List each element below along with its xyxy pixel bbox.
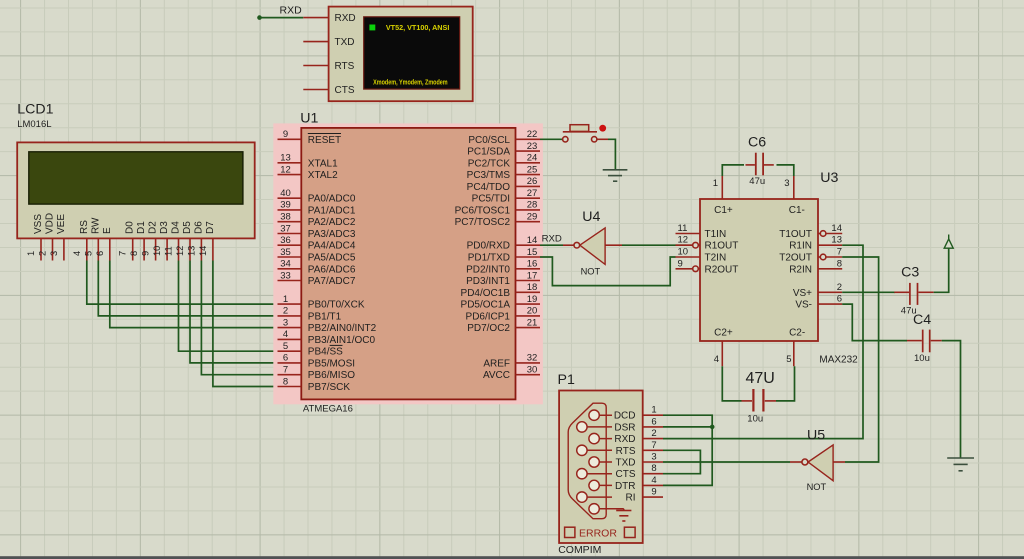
svg-text:R1IN: R1IN bbox=[789, 241, 812, 252]
capacitor C3 47u bbox=[894, 265, 933, 317]
svg-text:3: 3 bbox=[49, 251, 59, 256]
net label RXD (U1 pin 14) bbox=[542, 233, 562, 244]
svg-text:D0: D0 bbox=[125, 221, 136, 234]
svg-text:29: 29 bbox=[527, 212, 538, 223]
svg-text:R1OUT: R1OUT bbox=[705, 241, 739, 252]
U3 pin 7 T2OUT bbox=[779, 247, 842, 264]
LCD LCD1 reference label bbox=[17, 102, 53, 131]
svg-text:PC5/TDI: PC5/TDI bbox=[472, 194, 510, 205]
svg-text:D1: D1 bbox=[136, 221, 147, 234]
P1 pin 2 RXD bbox=[614, 428, 663, 445]
power symbol +V arrow bbox=[944, 235, 953, 249]
U1 pin 20 PD6/ICP1 bbox=[466, 306, 540, 323]
U1 pin 30 AVCC bbox=[483, 365, 540, 382]
svg-text:3: 3 bbox=[283, 317, 288, 328]
svg-text:19: 19 bbox=[527, 294, 538, 305]
ground symbol bottom right bbox=[947, 458, 974, 471]
svg-text:RTS: RTS bbox=[335, 61, 355, 72]
svg-text:DTR: DTR bbox=[615, 481, 636, 492]
svg-text:E: E bbox=[102, 227, 113, 234]
P1 DB9 hole right 4 bbox=[589, 480, 612, 490]
svg-text:R2OUT: R2OUT bbox=[705, 264, 739, 275]
wire LCD D5 to U1 bbox=[190, 261, 278, 363]
svg-text:C3: C3 bbox=[901, 265, 919, 281]
svg-text:TXD: TXD bbox=[616, 458, 636, 469]
svg-text:6: 6 bbox=[651, 416, 656, 427]
connector P1 COMPIM body bbox=[558, 372, 643, 556]
svg-text:7: 7 bbox=[118, 251, 128, 256]
svg-text:PA7/ADC7: PA7/ADC7 bbox=[308, 276, 356, 287]
wire LCD D6 to U1 bbox=[201, 261, 277, 375]
svg-text:6: 6 bbox=[283, 353, 288, 364]
LCD pin 7 D0 bbox=[118, 221, 136, 261]
svg-text:PD5/OC1A: PD5/OC1A bbox=[461, 300, 511, 311]
svg-text:PA3/ADC3: PA3/ADC3 bbox=[308, 229, 356, 240]
U1 pin 34 PA6/ADC6 bbox=[278, 259, 356, 276]
U3 pin 2 VS+ bbox=[793, 282, 842, 299]
svg-text:RXD: RXD bbox=[335, 13, 356, 24]
U1 pin 33 PA7/ADC7 bbox=[278, 270, 356, 287]
svg-text:PA6/ADC6: PA6/ADC6 bbox=[308, 264, 356, 275]
svg-text:C4: C4 bbox=[913, 312, 931, 328]
svg-text:9: 9 bbox=[283, 129, 288, 140]
svg-text:4: 4 bbox=[283, 329, 288, 340]
svg-text:30: 30 bbox=[527, 365, 538, 376]
U1 pin 14 PD0/RXD bbox=[467, 235, 540, 252]
svg-text:D5: D5 bbox=[182, 221, 193, 234]
LCD pin 3 VEE bbox=[49, 214, 67, 261]
svg-text:PB4/SS: PB4/SS bbox=[308, 347, 343, 358]
virtual terminal VT1 body bbox=[329, 7, 473, 102]
svg-text:3: 3 bbox=[651, 452, 656, 463]
svg-text:21: 21 bbox=[527, 317, 538, 328]
wire LCD RW to U1 bbox=[98, 261, 277, 316]
U3 pin 12 R1OUT bbox=[676, 235, 739, 252]
U3 pin 5 C2- bbox=[786, 341, 794, 366]
capacitor C6 47u bbox=[722, 135, 794, 188]
svg-text:14: 14 bbox=[198, 246, 208, 256]
svg-text:25: 25 bbox=[527, 164, 538, 175]
wire U1 PD0/RXD to U4 output bbox=[540, 244, 563, 246]
inverter U4 NOT bbox=[563, 209, 622, 276]
U1 pin 9 RESET bbox=[278, 129, 342, 146]
driver U3 MAX232 body bbox=[700, 170, 858, 366]
LCD pin 12 D5 bbox=[175, 221, 193, 261]
svg-text:5: 5 bbox=[83, 251, 93, 256]
U1 pin 23 PC1/SDA bbox=[467, 141, 540, 158]
svg-text:RS: RS bbox=[79, 220, 90, 234]
svg-text:AREF: AREF bbox=[483, 358, 510, 369]
svg-text:13: 13 bbox=[280, 153, 291, 164]
microcontroller U1 ATMEGA16 body bbox=[300, 111, 515, 415]
svg-text:7: 7 bbox=[283, 365, 288, 376]
P1 DB9 hole right 3 bbox=[589, 457, 612, 467]
svg-text:1: 1 bbox=[713, 178, 718, 189]
svg-text:C1-: C1- bbox=[789, 205, 805, 216]
svg-text:PA4/ADC4: PA4/ADC4 bbox=[308, 241, 356, 252]
svg-text:CTS: CTS bbox=[616, 469, 636, 480]
svg-text:RXD: RXD bbox=[280, 5, 303, 17]
LCD pin 8 D1 bbox=[129, 221, 147, 261]
P1 pin 9 RI bbox=[626, 487, 664, 504]
P1 DB9 hole left 3 bbox=[577, 469, 612, 479]
P1 DB9 hole right 5 bbox=[589, 504, 599, 514]
U3 pin 3 C1- bbox=[784, 176, 794, 199]
wire LCD D4 to U1 bbox=[179, 261, 278, 352]
U1 pin 22 PC0/SCL bbox=[468, 129, 540, 146]
svg-text:17: 17 bbox=[527, 270, 538, 281]
U1 pin 2 PB1/T1 bbox=[278, 306, 342, 323]
svg-text:RXD: RXD bbox=[542, 233, 562, 244]
U1 pin 12 XTAL2 bbox=[278, 164, 339, 181]
svg-text:PC1/SDA: PC1/SDA bbox=[467, 147, 510, 158]
wire U4 input to U3 R1OUT bbox=[622, 244, 686, 246]
LCD pin 11 D4 bbox=[164, 221, 182, 261]
svg-text:33: 33 bbox=[280, 270, 291, 281]
svg-text:VT52, VT100, ANSI: VT52, VT100, ANSI bbox=[386, 23, 450, 32]
wire LCD RS to U1 bbox=[87, 261, 278, 305]
svg-text:AVCC: AVCC bbox=[483, 370, 510, 381]
svg-text:7: 7 bbox=[837, 247, 842, 258]
U1 pin 8 PB7/SCK bbox=[278, 376, 351, 393]
svg-text:VSS: VSS bbox=[33, 214, 44, 234]
svg-text:PB7/SCK: PB7/SCK bbox=[308, 382, 351, 393]
U3 pin 11 T1IN bbox=[676, 223, 727, 240]
svg-text:LCD1: LCD1 bbox=[17, 102, 53, 118]
svg-text:4: 4 bbox=[714, 354, 719, 365]
capacitor 47U 10u bbox=[722, 366, 794, 424]
wire U3 VS- to C4 bbox=[842, 304, 907, 341]
P1 internal ground symbol bbox=[599, 509, 631, 521]
svg-text:P1: P1 bbox=[558, 372, 575, 388]
ground symbol below button bbox=[603, 170, 628, 181]
svg-text:XTAL1: XTAL1 bbox=[308, 158, 338, 169]
svg-text:22: 22 bbox=[527, 129, 538, 140]
svg-text:TXD: TXD bbox=[335, 37, 355, 48]
svg-text:47u: 47u bbox=[749, 176, 765, 187]
LCD pin 4 RS bbox=[72, 220, 90, 261]
svg-text:2: 2 bbox=[283, 306, 288, 317]
svg-text:U4: U4 bbox=[582, 209, 600, 225]
svg-text:16: 16 bbox=[527, 259, 538, 270]
svg-text:CTS: CTS bbox=[335, 85, 355, 96]
svg-text:7: 7 bbox=[651, 440, 656, 451]
terminal pin RXD bbox=[303, 13, 355, 24]
U1 pin 15 PD1/TXD bbox=[468, 247, 540, 264]
U1 pin 35 PA5/ADC5 bbox=[278, 247, 356, 264]
wire U3 VS+ to C3 bbox=[842, 291, 895, 293]
LCD pin 13 D6 bbox=[186, 221, 204, 261]
svg-text:LM016L: LM016L bbox=[17, 119, 51, 130]
svg-text:12: 12 bbox=[175, 246, 185, 256]
svg-text:ERROR: ERROR bbox=[579, 528, 617, 540]
svg-text:2: 2 bbox=[837, 282, 842, 293]
svg-text:XTAL2: XTAL2 bbox=[308, 170, 338, 181]
svg-text:2: 2 bbox=[38, 251, 48, 256]
svg-text:PA2/ADC2: PA2/ADC2 bbox=[308, 217, 356, 228]
P1 DB9 hole right 2 bbox=[589, 433, 612, 443]
U1 pin 3 PB2/AIN0/INT2 bbox=[278, 317, 377, 334]
svg-text:13: 13 bbox=[186, 246, 196, 256]
svg-text:NOT: NOT bbox=[807, 482, 827, 492]
svg-text:D7: D7 bbox=[205, 221, 216, 234]
U1 pin 26 PC4/TDO bbox=[467, 176, 540, 193]
P1 pin 3 TXD bbox=[616, 452, 664, 469]
U3 R1OUT pin lead bbox=[686, 244, 692, 246]
svg-text:VS-: VS- bbox=[795, 300, 812, 311]
U1 pin 25 PC3/TMS bbox=[467, 164, 540, 181]
U1 pin 40 PA0/ADC0 bbox=[278, 188, 356, 205]
P1 DB9 hole right 1 bbox=[589, 410, 612, 420]
svg-text:DSR: DSR bbox=[614, 422, 635, 433]
wire RXD net from junction to terminal RXD pin bbox=[257, 15, 303, 20]
wire U3 R1IN to P1 RXD bbox=[663, 245, 863, 438]
push button bbox=[563, 125, 608, 142]
svg-text:PA0/ADC0: PA0/ADC0 bbox=[308, 194, 356, 205]
svg-text:10: 10 bbox=[152, 246, 162, 256]
svg-text:C1+: C1+ bbox=[714, 205, 733, 216]
U1 pin 6 PB5/MOSI bbox=[278, 353, 356, 370]
wire button to ground bbox=[608, 139, 615, 170]
svg-text:PB3/AIN1/OC0: PB3/AIN1/OC0 bbox=[308, 335, 376, 346]
svg-text:38: 38 bbox=[280, 212, 291, 223]
U1 pin 5 PB4/SS bbox=[278, 341, 344, 358]
U1 pin 16 PD2/INT0 bbox=[466, 259, 540, 276]
U1 pin 24 PC2/TCK bbox=[468, 153, 540, 170]
U1 pin 27 PC5/TDI bbox=[472, 188, 540, 205]
wire U3 T2OUT to U5 input bbox=[842, 257, 878, 462]
svg-text:Xmodem, Ymodem, Zmodem: Xmodem, Ymodem, Zmodem bbox=[373, 77, 448, 86]
svg-text:T1OUT: T1OUT bbox=[779, 229, 812, 240]
svg-text:PC3/TMS: PC3/TMS bbox=[467, 170, 511, 181]
svg-text:10u: 10u bbox=[747, 414, 763, 425]
svg-text:C6: C6 bbox=[748, 135, 766, 151]
LCD pin 5 RW bbox=[83, 217, 101, 261]
svg-text:6: 6 bbox=[837, 294, 842, 305]
U3 pin 8 R2IN bbox=[789, 258, 842, 275]
P1 pin 7 RTS bbox=[616, 440, 663, 457]
net label RXD (terminal) bbox=[280, 5, 303, 17]
P1 pin 8 CTS bbox=[616, 463, 664, 480]
svg-text:8: 8 bbox=[837, 258, 842, 269]
P1 DB9 hole left 1 bbox=[577, 422, 612, 432]
wire P1 RTS to CTS loopback bbox=[663, 450, 700, 473]
svg-text:PD6/ICP1: PD6/ICP1 bbox=[466, 311, 511, 322]
svg-text:26: 26 bbox=[527, 176, 538, 187]
svg-text:PB5/MOSI: PB5/MOSI bbox=[308, 358, 355, 369]
svg-text:47U: 47U bbox=[746, 370, 775, 387]
terminal pin RTS bbox=[303, 61, 354, 72]
svg-text:1: 1 bbox=[651, 405, 656, 416]
svg-text:PC7/TOSC2: PC7/TOSC2 bbox=[455, 217, 511, 228]
U1 pin 13 XTAL1 bbox=[278, 153, 339, 170]
wire U1 pin22 to button bbox=[540, 138, 563, 140]
U1 pin 1 PB0/T0/XCK bbox=[278, 294, 365, 311]
svg-text:DCD: DCD bbox=[614, 411, 636, 422]
svg-text:PB0/T0/XCK: PB0/T0/XCK bbox=[308, 300, 365, 311]
wire LCD D7 to U1 bbox=[213, 261, 278, 387]
P1 DB9 hole left 4 bbox=[577, 492, 612, 502]
svg-text:24: 24 bbox=[527, 153, 538, 164]
svg-text:5: 5 bbox=[786, 354, 791, 365]
LCD LCD1 LM016L body bbox=[17, 142, 255, 238]
LCD pin 10 D3 bbox=[152, 221, 170, 261]
P1 pin 4 DTR bbox=[615, 475, 663, 492]
svg-text:C2+: C2+ bbox=[714, 328, 733, 339]
svg-text:NOT: NOT bbox=[581, 266, 601, 276]
svg-text:34: 34 bbox=[280, 259, 291, 270]
svg-text:4: 4 bbox=[651, 475, 656, 486]
svg-text:PD0/RXD: PD0/RXD bbox=[467, 241, 510, 252]
svg-text:12: 12 bbox=[280, 164, 291, 175]
LCD pin 2 VDD bbox=[38, 213, 56, 261]
svg-text:40: 40 bbox=[280, 188, 291, 199]
svg-text:T2OUT: T2OUT bbox=[779, 253, 812, 264]
wire LCD E to U1 bbox=[110, 261, 278, 328]
svg-text:T2IN: T2IN bbox=[705, 253, 727, 264]
svg-text:9: 9 bbox=[678, 258, 683, 269]
svg-text:PA5/ADC5: PA5/ADC5 bbox=[308, 253, 356, 264]
capacitor C4 10u bbox=[907, 312, 942, 364]
svg-text:PD1/TXD: PD1/TXD bbox=[468, 253, 510, 264]
U1 pin 36 PA4/ADC4 bbox=[278, 235, 356, 252]
svg-text:COMPIM: COMPIM bbox=[558, 544, 601, 556]
svg-text:36: 36 bbox=[280, 235, 291, 246]
svg-text:1: 1 bbox=[283, 294, 288, 305]
svg-text:PC6/TOSC1: PC6/TOSC1 bbox=[455, 205, 511, 216]
U1 pin 37 PA3/ADC3 bbox=[278, 223, 356, 240]
svg-text:12: 12 bbox=[678, 235, 689, 246]
svg-text:39: 39 bbox=[280, 200, 291, 211]
svg-text:32: 32 bbox=[527, 353, 538, 364]
wire P1 DCD-DSR-DTR tie bbox=[663, 415, 712, 485]
LCD pin 6 E bbox=[95, 227, 113, 261]
U1 pin 18 PD4/OC1B bbox=[461, 282, 540, 299]
svg-text:15: 15 bbox=[527, 247, 538, 258]
svg-text:10: 10 bbox=[678, 247, 689, 258]
terminal pin TXD bbox=[303, 37, 354, 48]
svg-text:3: 3 bbox=[784, 178, 789, 189]
U1 pin 7 PB6/MISO bbox=[278, 365, 356, 382]
U1 pin 21 PD7/OC2 bbox=[467, 317, 540, 334]
svg-text:37: 37 bbox=[280, 223, 291, 234]
svg-text:11: 11 bbox=[164, 246, 174, 256]
svg-text:PD4/OC1B: PD4/OC1B bbox=[461, 288, 511, 299]
U3 pin 10 T2IN bbox=[676, 247, 727, 264]
U3 pin 4 C2+ bbox=[714, 341, 723, 366]
svg-text:D4: D4 bbox=[171, 221, 182, 234]
svg-text:RTS: RTS bbox=[616, 446, 636, 457]
U1 pin 4 PB3/AIN1/OC0 bbox=[278, 329, 376, 346]
svg-text:18: 18 bbox=[527, 282, 538, 293]
U1 pin 32 AREF bbox=[483, 353, 540, 370]
window edge strip bbox=[0, 556, 1024, 559]
LCD pin 1 VSS bbox=[26, 214, 44, 261]
svg-text:T1IN: T1IN bbox=[705, 229, 727, 240]
svg-text:PC0/SCL: PC0/SCL bbox=[468, 135, 510, 146]
svg-text:23: 23 bbox=[527, 141, 538, 152]
svg-text:28: 28 bbox=[527, 200, 538, 211]
svg-text:D3: D3 bbox=[159, 221, 170, 234]
svg-text:13: 13 bbox=[831, 235, 842, 246]
svg-text:R2IN: R2IN bbox=[789, 264, 812, 275]
svg-text:1: 1 bbox=[26, 251, 36, 256]
svg-text:RI: RI bbox=[626, 493, 636, 504]
svg-text:MAX232: MAX232 bbox=[819, 355, 858, 366]
terminal pin CTS bbox=[303, 85, 355, 96]
U1 pin 19 PD5/OC1A bbox=[461, 294, 540, 311]
wire C3 to power bbox=[934, 248, 949, 292]
U3 pin 14 T1OUT bbox=[779, 223, 842, 240]
LCD pin 14 D7 bbox=[198, 221, 216, 261]
svg-text:RW: RW bbox=[90, 217, 101, 234]
P1 DB9 shell bbox=[568, 403, 606, 519]
svg-text:D6: D6 bbox=[193, 221, 204, 234]
U3 pin 1 C1+ bbox=[713, 176, 723, 199]
svg-text:PB6/MISO: PB6/MISO bbox=[308, 370, 355, 381]
svg-text:U1: U1 bbox=[300, 111, 318, 127]
svg-text:8: 8 bbox=[651, 463, 656, 474]
svg-text:PD7/OC2: PD7/OC2 bbox=[467, 323, 510, 334]
svg-text:PB1/T1: PB1/T1 bbox=[308, 311, 342, 322]
U3 pin 6 VS- bbox=[795, 294, 842, 311]
svg-text:VEE: VEE bbox=[56, 214, 67, 234]
LCD pin 9 D2 bbox=[141, 221, 159, 261]
svg-text:9: 9 bbox=[141, 251, 151, 256]
svg-text:20: 20 bbox=[527, 306, 538, 317]
svg-text:U3: U3 bbox=[820, 170, 838, 186]
svg-text:PD2/INT0: PD2/INT0 bbox=[466, 264, 510, 275]
wire U1 PD1/TXD to U3 T2IN bbox=[540, 257, 676, 286]
U3 pin 13 R1IN bbox=[789, 235, 842, 252]
wire U5 output to P1 TXD bbox=[663, 461, 790, 463]
microcontroller U1 ATMEGA16 highlight bbox=[273, 123, 543, 404]
U1 pin 39 PA1/ADC1 bbox=[278, 200, 356, 217]
svg-text:RXD: RXD bbox=[614, 434, 635, 445]
svg-text:VS+: VS+ bbox=[793, 288, 812, 299]
svg-text:14: 14 bbox=[831, 223, 842, 234]
svg-text:C2-: C2- bbox=[789, 328, 805, 339]
svg-text:10u: 10u bbox=[914, 353, 930, 364]
button red actuator dot bbox=[599, 125, 606, 132]
U1 pin 17 PD3/INT1 bbox=[466, 270, 540, 287]
svg-text:U5: U5 bbox=[807, 428, 825, 444]
P1 DB9 hole left 2 bbox=[577, 445, 612, 455]
P1 ERROR indicator bbox=[565, 527, 636, 539]
U1 pin 28 PC6/TOSC1 bbox=[455, 200, 540, 217]
svg-text:PC2/TCK: PC2/TCK bbox=[468, 158, 511, 169]
svg-text:PA1/ADC1: PA1/ADC1 bbox=[308, 205, 356, 216]
P1 pin 6 DSR bbox=[614, 416, 663, 433]
P1 pin 1 DCD bbox=[614, 405, 663, 422]
svg-text:8: 8 bbox=[283, 376, 288, 387]
U3 pin 9 R2OUT bbox=[676, 258, 739, 275]
svg-text:8: 8 bbox=[129, 251, 139, 256]
svg-text:PD3/INT1: PD3/INT1 bbox=[466, 276, 510, 287]
svg-text:35: 35 bbox=[280, 247, 291, 258]
svg-text:RESET: RESET bbox=[308, 135, 341, 146]
wire C4 to ground bbox=[942, 341, 961, 458]
junction dot DSR bbox=[710, 425, 715, 430]
svg-text:D2: D2 bbox=[148, 221, 159, 234]
svg-text:4: 4 bbox=[72, 251, 82, 256]
svg-text:9: 9 bbox=[651, 487, 656, 498]
svg-text:PB2/AIN0/INT2: PB2/AIN0/INT2 bbox=[308, 323, 377, 334]
U1 pin 29 PC7/TOSC2 bbox=[455, 212, 540, 229]
svg-text:PC4/TDO: PC4/TDO bbox=[467, 182, 511, 193]
svg-text:14: 14 bbox=[527, 235, 538, 246]
svg-text:VDD: VDD bbox=[45, 213, 56, 234]
